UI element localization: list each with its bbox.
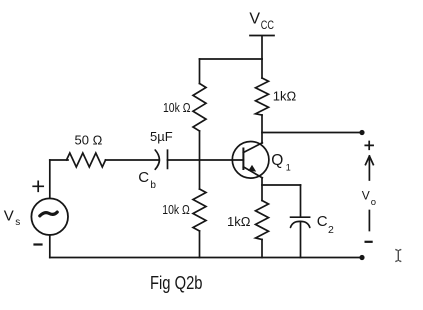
svg-text:Fig Q2b: Fig Q2b (150, 273, 203, 293)
wire top rail (200, 58, 263, 60)
transistor Q1 circle (232, 142, 269, 179)
svg-text:10k Ω: 10k Ω (163, 100, 191, 115)
wire source vertical top (49, 160, 51, 198)
svg-text:C: C (317, 213, 328, 230)
svg-text:V: V (362, 189, 370, 203)
svg-text:1kΩ: 1kΩ (227, 214, 251, 229)
svg-text:10k Ω: 10k Ω (162, 202, 190, 217)
capacitor C2 curved plate (291, 221, 310, 227)
transistor Q1 collector lead (243, 143, 262, 153)
wire collector node (261, 115, 263, 143)
capacitor Cb straight plate (167, 150, 169, 168)
resistor R1 10k (upper bias) (193, 84, 206, 132)
capacitor Cb curved plate (155, 150, 159, 169)
resistor RS 50 ohm (67, 153, 106, 167)
svg-text:o: o (371, 197, 376, 208)
node output top dot (359, 130, 364, 135)
wire left branch middle (199, 131, 201, 189)
svg-text:5µF: 5µF (150, 129, 173, 144)
source sine tilde (40, 212, 57, 216)
wire emitter to C2 (262, 184, 301, 186)
wire source vertical bottom (49, 235, 51, 258)
transistor Q1 base bar (242, 149, 244, 170)
transistor Q1 emitter arrowhead (248, 165, 256, 172)
wire left branch upper (199, 59, 201, 84)
text cursor I-beam (395, 249, 401, 261)
wire collector branch upper (261, 59, 263, 78)
svg-text:50 Ω: 50 Ω (75, 133, 103, 148)
svg-text:V: V (249, 11, 260, 28)
source VS circle (31, 198, 68, 235)
svg-text:Q: Q (271, 152, 283, 169)
svg-text:s: s (15, 217, 20, 228)
svg-text:2: 2 (328, 224, 334, 236)
wire bottom rail (50, 257, 362, 259)
wire C2 bottom (300, 222, 302, 258)
output plus sign (365, 142, 373, 150)
source plus sign (33, 181, 43, 191)
wire C2 top (300, 185, 302, 217)
wire left branch lower (199, 231, 201, 258)
resistor R2 10k (lower bias) (193, 189, 206, 231)
svg-text:1kΩ: 1kΩ (273, 89, 297, 104)
wire Cb to base (168, 159, 244, 161)
output minus sign (366, 241, 372, 243)
svg-text:V: V (4, 208, 14, 225)
resistor RC 1k (collector) (256, 78, 269, 115)
Vo arrow shaft lower (368, 211, 370, 231)
svg-text:CC: CC (261, 20, 274, 32)
Vcc supply symbol (250, 36, 274, 60)
Vo arrow head (366, 156, 374, 165)
resistor RE 1k (emitter) (256, 201, 269, 240)
capacitor C2 top plate (291, 216, 310, 218)
wire output top (262, 132, 362, 134)
svg-text:b: b (150, 180, 156, 191)
wire emitter lower (261, 240, 263, 258)
wire resistor to Cb (106, 159, 158, 161)
svg-text:C: C (138, 169, 149, 186)
node output bottom dot (359, 255, 364, 260)
wire input from source to resistor (50, 159, 68, 161)
source minus sign (35, 243, 42, 245)
svg-text:1: 1 (286, 163, 291, 173)
wire emitter vertical (261, 178, 263, 201)
transistor Q1 emitter lead (243, 167, 262, 178)
Vo arrow shaft upper (368, 157, 370, 181)
